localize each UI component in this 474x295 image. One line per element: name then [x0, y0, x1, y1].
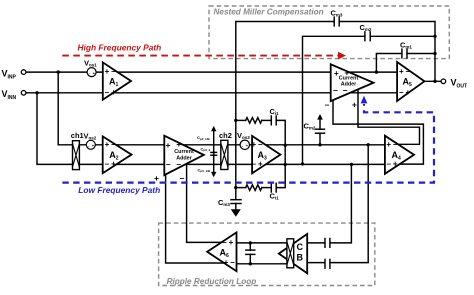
svg-text:+: + — [258, 160, 263, 169]
svg-text:Current: Current — [174, 149, 194, 155]
svg-text:–: – — [258, 140, 263, 149]
svg-text:+: + — [105, 140, 110, 149]
svg-text:Adder: Adder — [341, 82, 357, 88]
svg-text:+: + — [399, 67, 404, 76]
svg-text:+: + — [352, 100, 357, 110]
svg-text:–: – — [105, 88, 110, 97]
svg-text:–: – — [399, 88, 404, 97]
svg-text:–: – — [111, 67, 116, 76]
svg-text:–: – — [222, 238, 227, 247]
svg-text:–: – — [386, 160, 391, 169]
svg-text:Current: Current — [339, 75, 359, 81]
svg-text:–: – — [230, 258, 235, 267]
svg-text:Ripple Reduction Loop: Ripple Reduction Loop — [167, 277, 257, 286]
svg-text:Adder: Adder — [176, 156, 192, 162]
svg-text:–: – — [406, 67, 411, 76]
svg-text:ch1: ch1 — [71, 131, 84, 140]
svg-text:–: – — [166, 159, 171, 169]
svg-text:Cp0_1/B: Cp0_1/B — [197, 135, 211, 141]
svg-text:C: C — [297, 242, 304, 252]
svg-text:Nested Miller Compensation: Nested Miller Compensation — [214, 8, 324, 17]
svg-text:Low Frequency Path: Low Frequency Path — [78, 185, 160, 195]
svg-text:–: – — [393, 140, 398, 149]
svg-text:ch2: ch2 — [219, 131, 232, 140]
svg-text:+: + — [111, 88, 116, 97]
svg-text:Cp0_1/B: Cp0_1/B — [198, 167, 212, 173]
svg-text:–: – — [252, 160, 257, 169]
svg-text:+: + — [224, 258, 229, 267]
svg-text:–: – — [105, 160, 110, 169]
svg-text:+: + — [405, 88, 410, 97]
svg-text:–: – — [111, 140, 116, 149]
svg-text:+: + — [166, 140, 171, 150]
svg-text:High Frequency Path: High Frequency Path — [78, 43, 162, 53]
svg-text:+: + — [229, 238, 234, 247]
svg-text:–: – — [333, 85, 338, 95]
svg-text:+: + — [105, 67, 110, 76]
svg-text:+: + — [251, 140, 256, 149]
svg-text:–: – — [325, 100, 330, 110]
svg-text:Cp0_2: Cp0_2 — [201, 146, 211, 152]
svg-text:+: + — [386, 140, 391, 149]
svg-text:B: B — [297, 253, 304, 263]
svg-text:+: + — [176, 139, 181, 149]
